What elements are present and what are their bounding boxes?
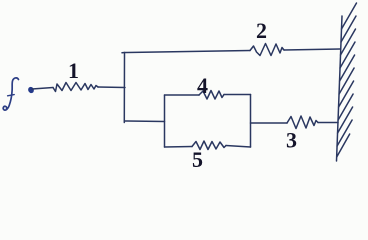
label 5 bbox=[192, 147, 203, 172]
node A vertical wire bbox=[123, 53, 125, 123]
resistor 2 bbox=[250, 44, 284, 56]
resistor 1 bbox=[53, 83, 98, 92]
wire: resistor 3 to wall bbox=[318, 122, 338, 124]
label 3 bbox=[286, 128, 297, 153]
svg-text:2: 2 bbox=[256, 18, 267, 43]
wire: resistor 1 to node A bbox=[98, 86, 125, 89]
resistor 5 bbox=[192, 141, 226, 150]
parallel box left edge wire bbox=[164, 95, 166, 147]
label 4 bbox=[197, 73, 208, 98]
input node dot bbox=[27, 86, 35, 94]
svg-text:1: 1 bbox=[68, 58, 79, 83]
label 2 bbox=[256, 18, 267, 43]
svg-text:3: 3 bbox=[286, 128, 297, 153]
wall hatching bbox=[337, 3, 357, 157]
parallel box top-left wire bbox=[165, 94, 200, 96]
label 1 bbox=[68, 58, 79, 83]
parallel box bottom-right wire bbox=[226, 146, 251, 148]
resistor 4 bbox=[199, 91, 224, 100]
parallel box right edge wire bbox=[250, 95, 252, 148]
wire: node A to resistor 2 (top branch) bbox=[122, 51, 250, 53]
wire: node A to parallel box bbox=[125, 120, 165, 123]
svg-text:4: 4 bbox=[197, 73, 208, 98]
wire: resistor 2 to wall bbox=[284, 49, 340, 50]
svg-text:5: 5 bbox=[192, 147, 203, 172]
wire: parallel box to resistor 3 bbox=[251, 122, 288, 124]
wall (fixed support) vertical line bbox=[337, 16, 343, 161]
force source f bbox=[3, 78, 18, 110]
wire: input dot to resistor 1 bbox=[32, 88, 53, 90]
parallel box top-right wire bbox=[224, 94, 251, 96]
resistor 3 bbox=[287, 116, 318, 129]
parallel box bottom-left wire bbox=[165, 146, 193, 149]
